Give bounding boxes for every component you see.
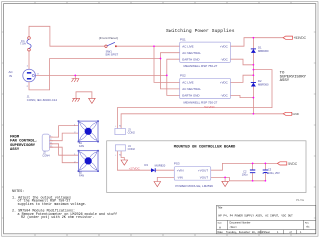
power supply PS2 bbox=[180, 74, 231, 109]
wire J2 pin3 to fan B2 bbox=[50, 144, 79, 155]
svg-text:Tuesday, December 28, 2010: Tuesday, December 28, 2010 bbox=[226, 231, 264, 234]
wire live feed PS2 bbox=[154, 46, 180, 82]
svg-text:PS3: PS3 bbox=[174, 162, 180, 166]
svg-text:CONN, IEC-60320-C14: CONN, IEC-60320-C14 bbox=[27, 98, 58, 102]
note: FROM FAN CONTROL bbox=[10, 136, 37, 152]
svg-text:PS2: PS2 bbox=[180, 74, 186, 78]
wire J4 pin2 to signal gnd bbox=[121, 151, 124, 160]
svg-text:HP P4, P4 POWER SUPPLY ASSY, A: HP P4, P4 POWER SUPPLY ASSY, AC INPUT, V… bbox=[219, 215, 294, 218]
svg-text:R2 (under pot) with 2K ohm re: R2 (under pot) with 2K ohm resistor. bbox=[21, 215, 94, 220]
svg-text:-VDC: -VDC bbox=[221, 57, 229, 61]
wire PS1 -VDC to bus bbox=[230, 59, 253, 65]
off-page flag +53VDC bbox=[283, 36, 307, 40]
svg-text:CON4: CON4 bbox=[42, 154, 50, 158]
wire earth stub to ground bbox=[74, 75, 76, 78]
svg-text:EARTH GND: EARTH GND bbox=[182, 94, 199, 98]
notes text bbox=[12, 190, 117, 220]
wire bus vertical bbox=[252, 38, 254, 114]
wire ground tie bracket bbox=[76, 92, 92, 99]
svg-text:AC LIVE: AC LIVE bbox=[182, 81, 193, 85]
wire neutral bbox=[29, 59, 161, 90]
wire J2 pin4 to fan B2 bbox=[50, 147, 79, 163]
svg-text:supplies to their maximum volt: supplies to their maximum voltage. bbox=[18, 202, 87, 207]
svg-text:D3: D3 bbox=[144, 163, 148, 167]
svg-text:AC LIVE: AC LIVE bbox=[182, 44, 193, 48]
controller board box bbox=[107, 141, 306, 193]
svg-text:POWER MODULE, LM2596: POWER MODULE, LM2596 bbox=[175, 184, 213, 188]
wire GND rail to J3 pin2 bbox=[121, 114, 283, 129]
svg-text:of: of bbox=[290, 231, 292, 234]
diode D2 bbox=[251, 79, 269, 87]
ground signal (below VOUT) bbox=[222, 181, 229, 186]
fan B2 bbox=[74, 150, 99, 178]
capacitor C3 bbox=[263, 168, 280, 175]
connector J1 (IEC inlet) bbox=[9, 66, 58, 102]
wire J2 pin2 to fan B1 bbox=[50, 133, 79, 141]
svg-text:-VIN: -VIN bbox=[177, 176, 183, 180]
ground signal (below -VIN) bbox=[154, 182, 161, 187]
svg-text:MUR820: MUR820 bbox=[155, 163, 166, 167]
wire fuse to connector bbox=[28, 51, 30, 69]
wire live: fuse top to switch bbox=[29, 26, 283, 181]
wire PS1 +VDC to +53VDC flag bbox=[230, 38, 283, 47]
wire neutral to PS1 bbox=[161, 53, 180, 59]
connector J3 bbox=[115, 125, 135, 134]
svg-text:AC NEUTRAL: AC NEUTRAL bbox=[182, 87, 201, 91]
svg-text:D1: D1 bbox=[258, 45, 262, 49]
svg-text:+27VDC: +27VDC bbox=[129, 166, 140, 170]
diode D3 bbox=[144, 163, 165, 172]
svg-text:AC NEUTRAL: AC NEUTRAL bbox=[182, 51, 201, 55]
svg-text:EARTH GND: EARTH GND bbox=[182, 57, 199, 61]
regulator module PS3 bbox=[174, 162, 213, 188]
svg-text:7.5A: 7.5A bbox=[20, 42, 26, 46]
wire earth bbox=[36, 74, 167, 76]
fuse F1 bbox=[20, 37, 31, 51]
svg-text:NOTES:: NOTES: bbox=[12, 190, 24, 194]
wire J2 pin1 to fan B1 bbox=[50, 126, 79, 138]
svg-text:MEANWELL RSP 750-27: MEANWELL RSP 750-27 bbox=[184, 100, 218, 104]
svg-text:(Front Panel): (Front Panel) bbox=[99, 36, 118, 40]
svg-text:+53VDC: +53VDC bbox=[294, 36, 307, 40]
wire PS3 +VOUT to 5VDC rail bbox=[211, 163, 278, 170]
svg-text:MBR360: MBR360 bbox=[258, 83, 269, 87]
svg-text:SW SPST: SW SPST bbox=[105, 53, 118, 57]
ground signal (below J4) bbox=[121, 160, 128, 165]
svg-text:VOUT: VOUT bbox=[200, 176, 209, 180]
fan B1 bbox=[74, 120, 99, 148]
svg-text:Title: Title bbox=[218, 206, 223, 210]
title block bbox=[217, 205, 316, 234]
svg-text:CON2: CON2 bbox=[128, 131, 136, 135]
capacitor C2 bbox=[242, 169, 256, 176]
svg-text:Date:: Date: bbox=[218, 231, 224, 234]
ground earth (at neutral junction) bbox=[72, 79, 80, 82]
wire PS3 VOUT return rail bbox=[211, 177, 266, 180]
svg-text:Document Number: Document Number bbox=[230, 222, 251, 225]
ground earth (tie, left) bbox=[72, 98, 80, 101]
svg-text:ASSY: ASSY bbox=[280, 79, 290, 83]
svg-text:IN: IN bbox=[9, 74, 12, 78]
svg-text:FAN: FAN bbox=[79, 144, 84, 148]
svg-text:MOUNTED ON CONTROLLER BOARD: MOUNTED ON CONTROLLER BOARD bbox=[174, 146, 236, 150]
svg-text:FAN: FAN bbox=[79, 174, 84, 178]
svg-text:PS1: PS1 bbox=[180, 37, 186, 41]
svg-text:+VDC: +VDC bbox=[220, 81, 229, 85]
svg-text:CON2: CON2 bbox=[128, 147, 136, 151]
svg-text:+VIN: +VIN bbox=[177, 168, 184, 172]
wire PS2 -VDC to bus bbox=[230, 95, 253, 97]
wire earth to PS2 bbox=[167, 75, 180, 95]
svg-text:<Doc>: <Doc> bbox=[230, 226, 238, 229]
svg-text:A: A bbox=[219, 225, 221, 229]
svg-text:MEANWELL RSP 750-27: MEANWELL RSP 750-27 bbox=[184, 64, 218, 68]
svg-text:Switching Power Supplies: Switching Power Supplies bbox=[166, 28, 235, 34]
wire VOUT gnd stub bbox=[224, 177, 226, 181]
wire earth to PS1 bbox=[167, 59, 180, 75]
wire C3 bbox=[264, 163, 266, 180]
diode D1 bbox=[251, 45, 269, 53]
note: TO SUPERVISORY ASSY bbox=[280, 72, 307, 83]
switch SW1 bbox=[99, 36, 119, 57]
svg-text:GND: GND bbox=[292, 112, 298, 116]
wire midpoint tap to J3 pin1 bbox=[117, 70, 272, 129]
wire neutral to PS2 bbox=[161, 59, 180, 89]
off-page flag GND bbox=[283, 112, 299, 116]
connector J4 bbox=[115, 144, 135, 157]
off-page flag 5VDC bbox=[277, 162, 297, 166]
svg-text:PS-70a: PS-70a bbox=[296, 199, 305, 202]
ground signal (tie, right) bbox=[89, 98, 96, 103]
wire C2 bbox=[252, 163, 254, 180]
wire PS3 -VIN to gnd bbox=[157, 177, 174, 181]
svg-text:54 VDC: 54 VDC bbox=[204, 105, 215, 109]
power supply PS1 bbox=[180, 37, 231, 68]
svg-text:MBR360: MBR360 bbox=[258, 49, 269, 53]
svg-text:+VOUT: +VOUT bbox=[198, 168, 208, 172]
svg-text:-VDC: -VDC bbox=[221, 94, 229, 98]
svg-text:ASSY: ASSY bbox=[10, 148, 20, 152]
svg-text:Sheet: Sheet bbox=[264, 231, 271, 234]
connector J2 bbox=[42, 134, 53, 158]
svg-text:100u, 25V: 100u, 25V bbox=[268, 171, 280, 175]
svg-text:D2: D2 bbox=[258, 79, 262, 83]
wire J4 pin1 to D3 to PS3 bbox=[117, 151, 174, 170]
wire PS2 +VDC to bus bbox=[230, 75, 253, 82]
svg-text:+VDC: +VDC bbox=[220, 44, 229, 48]
svg-text:100u: 100u bbox=[242, 173, 248, 177]
svg-text:5VDC: 5VDC bbox=[288, 162, 297, 166]
